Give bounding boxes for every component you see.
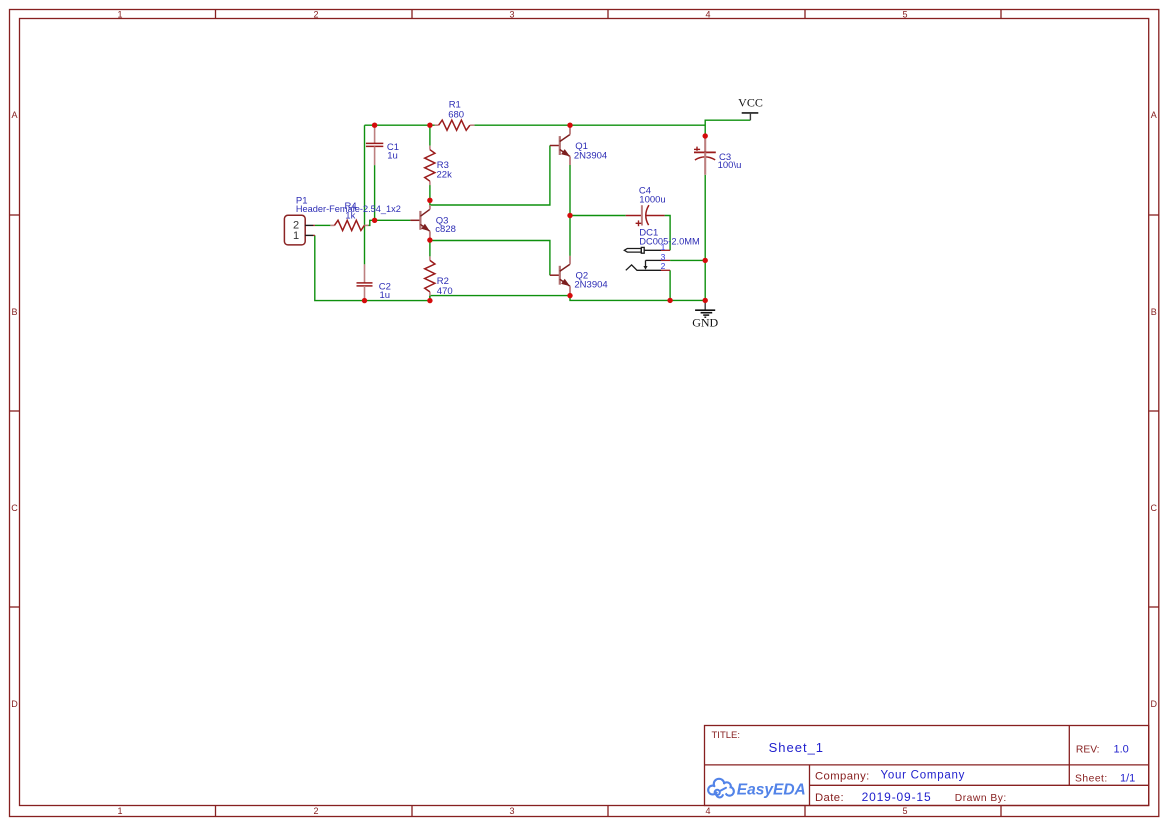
- connector P1: [284, 215, 314, 245]
- svg-text:c828: c828: [435, 224, 456, 235]
- node Q3 emitter: [427, 237, 432, 242]
- pin 3: [646, 259, 662, 261]
- svg-text:C: C: [11, 503, 18, 513]
- transistor Q1 (2N3904): [550, 126, 570, 165]
- wire top rail right of R1: [474, 124, 705, 126]
- wire Q1 emitter to C4 node: [569, 165, 571, 216]
- svg-text:EasyEDA: EasyEDA: [737, 782, 806, 799]
- node C3 top: [703, 133, 708, 138]
- node C1 top: [372, 123, 377, 128]
- svg-text:1: 1: [117, 10, 122, 20]
- top ticks: [215, 10, 217, 20]
- wire top rail left of R1: [365, 124, 435, 126]
- node R3 bottom: [427, 198, 432, 203]
- wire P1 pin1 down: [315, 235, 430, 300]
- svg-text:C: C: [1151, 503, 1158, 513]
- DC1 pin numbers: [661, 242, 666, 271]
- svg-text:Sheet:: Sheet:: [1075, 774, 1108, 785]
- wire left vertical C2 branch top: [364, 125, 366, 264]
- pin 1 plug tip: [624, 249, 641, 253]
- right ticks: [1149, 214, 1159, 216]
- svg-text:Date:: Date:: [815, 792, 844, 804]
- resistor R3: [425, 146, 435, 186]
- svg-text:1: 1: [293, 230, 299, 242]
- svg-text:2019-09-15: 2019-09-15: [862, 790, 932, 804]
- wire C3 bottom lead down: [704, 175, 706, 261]
- wire bottom rail step up: [430, 296, 570, 301]
- svg-text:Your Company: Your Company: [881, 770, 966, 782]
- wires (green): [315, 120, 751, 300]
- svg-text:2: 2: [313, 806, 318, 816]
- node DC1 pin3: [703, 258, 708, 263]
- node Q3 base: [372, 218, 377, 223]
- svg-text:REV:: REV:: [1076, 745, 1100, 756]
- node R2 bottom: [427, 298, 432, 303]
- title block: [705, 726, 1149, 806]
- DC1 pin tips: [661, 250, 670, 270]
- resistor R1: [435, 120, 475, 130]
- wire C3 node to GND node: [704, 260, 706, 300]
- wire DC1 pin2 down to rail: [669, 270, 671, 300]
- svg-text:A: A: [1151, 110, 1157, 120]
- component labels: [296, 100, 741, 301]
- capacitor C3 (polarized): [694, 136, 716, 175]
- svg-text:D: D: [11, 699, 18, 709]
- transistor Q3 (c828): [410, 205, 430, 239]
- wire P1 pin2 to R4: [315, 224, 331, 226]
- wire bottom rail right: [570, 296, 705, 301]
- wire R3 junction to Q1 base: [430, 146, 550, 206]
- node R1/R3: [427, 123, 432, 128]
- node GND: [703, 298, 708, 303]
- DC jack DC1: [624, 247, 661, 270]
- svg-text:4: 4: [705, 10, 710, 20]
- svg-text:TITLE:: TITLE:: [712, 730, 741, 741]
- capacitor C4 (polarized): [626, 205, 665, 226]
- bottom ticks: [215, 806, 217, 817]
- EasyEDA logo: [708, 779, 806, 799]
- wire R3 bottom to junction: [429, 185, 431, 200]
- left ticks: [10, 214, 21, 216]
- capacitor C1: [366, 125, 383, 165]
- wire DC1 pin3 to C3 line: [670, 259, 705, 261]
- svg-text:D: D: [1151, 699, 1158, 709]
- svg-text:1: 1: [117, 806, 122, 816]
- svg-text:Sheet_1: Sheet_1: [769, 740, 824, 755]
- wire Q2 emitter to rail: [569, 295, 571, 296]
- svg-text:4: 4: [705, 806, 710, 816]
- wire C4 left: [570, 215, 626, 217]
- svg-text:1.0: 1.0: [1114, 744, 1129, 756]
- wire C4 right to DC1 pin1: [665, 216, 671, 251]
- svg-text:1000u: 1000u: [639, 195, 665, 206]
- svg-text:B: B: [1151, 307, 1157, 317]
- svg-text:GND: GND: [692, 316, 718, 330]
- node DC1 pin2 bottom: [667, 298, 672, 303]
- DC1 pin 3 arrow: [643, 266, 647, 270]
- svg-text:2: 2: [661, 261, 666, 271]
- wire R2 top lead: [429, 240, 431, 256]
- resistor R2: [425, 256, 435, 296]
- wire R2 bottom lead: [429, 296, 431, 301]
- capacitor C2: [357, 264, 373, 300]
- svg-text:2: 2: [313, 10, 318, 20]
- svg-text:Company:: Company:: [815, 771, 870, 783]
- wire R3 top lead: [429, 125, 431, 146]
- svg-text:5: 5: [902, 10, 907, 20]
- GND symbol: [692, 300, 718, 329]
- junction dots: [362, 123, 708, 304]
- node C4 left: [567, 213, 572, 218]
- VCC symbol: [738, 96, 763, 121]
- svg-text:Drawn By:: Drawn By:: [955, 793, 1007, 804]
- node Q1 collector: [567, 123, 572, 128]
- wire R4 to Q3 base: [369, 220, 411, 225]
- svg-text:680: 680: [448, 110, 464, 121]
- svg-text:2N3904: 2N3904: [574, 280, 607, 291]
- wire C4 node to Q2 collector: [569, 216, 571, 256]
- svg-text:B: B: [11, 307, 17, 317]
- svg-text:100\u: 100\u: [718, 160, 742, 171]
- wire Q3 emitter junction to Q2 base: [430, 239, 550, 276]
- wire C1 lower lead to base net: [374, 165, 376, 220]
- svg-text:1u: 1u: [380, 290, 391, 301]
- node C2 bottom: [362, 298, 367, 303]
- svg-text:VCC: VCC: [738, 96, 763, 110]
- svg-text:5: 5: [902, 806, 907, 816]
- svg-text:Header-Female-2.54_1x2: Header-Female-2.54_1x2: [296, 204, 401, 215]
- transistor Q2 (2N3904): [550, 256, 570, 295]
- svg-text:1/1: 1/1: [1120, 773, 1135, 785]
- pin 2 sleeve: [626, 265, 661, 270]
- svg-text:A: A: [11, 110, 17, 120]
- svg-text:3: 3: [509, 806, 514, 816]
- svg-text:1u: 1u: [387, 150, 398, 161]
- svg-text:470: 470: [437, 286, 453, 297]
- wire VCC branch: [705, 120, 750, 136]
- resistor R4: [330, 220, 368, 230]
- node Q2 emitter: [567, 293, 572, 298]
- svg-text:2N3904: 2N3904: [574, 150, 607, 161]
- svg-text:22k: 22k: [437, 170, 453, 181]
- svg-text:DC005-2.0MM: DC005-2.0MM: [639, 236, 700, 247]
- svg-text:3: 3: [509, 10, 514, 20]
